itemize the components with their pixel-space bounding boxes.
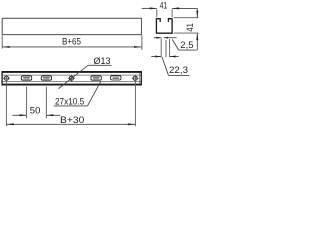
svg-text:50: 50	[30, 104, 41, 115]
svg-text:27x10.5: 27x10.5	[55, 95, 84, 106]
svg-text:Ø13: Ø13	[94, 55, 111, 66]
svg-text:2,5: 2,5	[180, 39, 193, 50]
svg-text:22,3: 22,3	[169, 64, 188, 75]
svg-text:B+65: B+65	[62, 36, 81, 47]
svg-text:41: 41	[184, 23, 195, 31]
svg-text:B+30: B+30	[60, 114, 84, 125]
svg-text:41: 41	[160, 0, 168, 10]
